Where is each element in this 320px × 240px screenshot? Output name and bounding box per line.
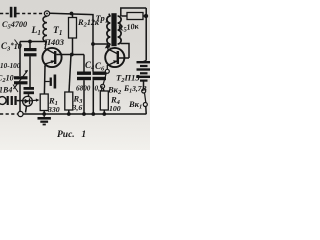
wire Tr1 primary bottom to T2 collector junction [108, 44, 110, 48]
wire R5 left lead [122, 15, 128, 17]
transformer Tr1 left winding [107, 16, 111, 44]
wire C6 top lead [92, 44, 94, 72]
wire battery top lead [144, 61, 147, 62]
transistor T1 collector wire [45, 42, 55, 54]
wire R5 right lead [143, 15, 146, 17]
wire C6 bottom lead [92, 80, 94, 114]
wire R3 bottom [68, 110, 70, 114]
wire diode bottom lead [26, 106, 27, 113]
ground symbol [43, 114, 45, 117]
transistor T2 emitter wire with arrow [107, 61, 117, 69]
wire T1 emitter down [43, 66, 46, 94]
capacitor C6 plates [93, 72, 107, 81]
wire right rail [145, 8, 147, 61]
wire T1 base to node A [56, 54, 84, 56]
transistor T2 base bar [117, 51, 119, 64]
label C3 pointer [15, 40, 20, 46]
wire R4 bottom [103, 110, 105, 114]
wire C2 branch lower [19, 85, 21, 112]
svg-text:330: 330 [47, 105, 60, 114]
node dot C3 top [28, 40, 32, 44]
transistor T1 circle [42, 48, 61, 67]
node A dot [70, 53, 74, 57]
battery B1 cells [137, 61, 151, 82]
wire feed drop x93 [93, 43, 108, 45]
wire Vk1 to bus corner [145, 107, 147, 115]
resistor R3 body [65, 92, 73, 110]
capacitor C1 plates (above diode) [24, 87, 35, 94]
svg-text:100: 100 [109, 104, 121, 113]
wire diode top stub [28, 94, 30, 96]
wire tank bus y41.5 [20, 41, 47, 43]
arrowhead Tr1 adjustable coupling [105, 43, 111, 48]
wire C4 bottom lead [83, 80, 85, 114]
capacitor C4 plates [77, 72, 91, 81]
node antenna terminal circle [44, 11, 49, 16]
wire C4 top lead [83, 55, 85, 72]
node dot R5 right [144, 14, 148, 18]
wire Tr1 secondary top lead [121, 8, 146, 16]
svg-text:6800: 6800 [76, 85, 91, 93]
wire R1 bottom [43, 111, 45, 115]
node dot R2 top [70, 12, 74, 16]
wire C3 upper lead [29, 42, 31, 49]
wire bottom bus solid [23, 113, 146, 115]
wire antenna dashed to terminal [17, 13, 44, 15]
switch Vk1 bottom contact [143, 103, 147, 107]
svg-text:Рис. 1: Рис. 1 [57, 130, 86, 140]
svg-text:C54700: C54700 [2, 20, 27, 31]
wire through diode [23, 100, 33, 102]
transformer Tr1 right winding [118, 16, 122, 44]
diode D1 arrow [25, 99, 29, 104]
transistor T2 collector wire [108, 44, 117, 54]
wire Tr1 left winding top hook [109, 14, 111, 17]
svg-text:1В4: 1В4 [0, 86, 12, 95]
svg-text:3,6: 3,6 [72, 103, 83, 112]
capacitor C2 plates (variable) [14, 76, 28, 84]
svg-text:Б13,7В: Б13,7В [123, 84, 147, 95]
capacitor C3 plates [24, 48, 37, 56]
resistor R4 body [100, 91, 108, 110]
arrow variable C2 [14, 71, 28, 90]
transistor T2 circle [105, 48, 124, 67]
wire antenna dashed lead-in (top left) [0, 13, 9, 15]
wire bottom bus dashed (external) [0, 113, 18, 115]
diode D1 circle [23, 96, 33, 106]
resistor R5 body [127, 13, 143, 20]
label diode pointer [13, 85, 18, 93]
wire R2 bottom lead [72, 38, 74, 55]
wire Vk2 to R4 [103, 88, 104, 91]
svg-text:10-100: 10-100 [0, 62, 21, 70]
wire phones row [17, 100, 23, 102]
svg-text:C210: C210 [0, 74, 14, 85]
node dot R4 bottom [102, 112, 106, 116]
paper background [0, 0, 150, 150]
transistor T1 emitter wire with arrow [45, 61, 55, 67]
resistor R2 body [69, 18, 77, 39]
wire arrow to R1 [32, 99, 36, 101]
node dot R1 bottom [42, 112, 46, 116]
switch Vk2 lever [103, 73, 106, 84]
wire battery bottom lead [143, 81, 145, 89]
wire C3 lower lead [29, 56, 31, 87]
inductor L1 coil [43, 16, 47, 42]
wire node A to R3 [69, 55, 71, 93]
switch Vk1 top contact [142, 89, 146, 93]
transistor T2 base wire [119, 57, 129, 59]
wire top bus [50, 13, 93, 44]
wire Tr1 secondary bottom lead [121, 44, 129, 59]
capacitor (phones) plates [11, 96, 17, 105]
node dot C6 bottom [91, 112, 95, 116]
switch Vk1 lever [145, 93, 146, 103]
capacitor C5 plates [10, 7, 17, 18]
wire C2 branch upper [19, 42, 21, 77]
wire R2 top lead [72, 14, 74, 18]
switch Vk2 bottom contact [101, 84, 105, 88]
svg-text:0,1: 0,1 [95, 85, 104, 93]
switch Vk2 top contact [105, 69, 109, 73]
transistor T1 base bar [54, 51, 56, 64]
transformer Tr1 core [111, 13, 116, 46]
node ground terminal circle [18, 111, 23, 116]
node dot x93 y44 [91, 42, 95, 46]
resistor R1 body [40, 94, 48, 111]
svg-text:Т2П15: Т2П15 [116, 73, 140, 85]
capacitor emitter bypass stub [45, 81, 50, 83]
node dot R3 bottom [67, 112, 71, 116]
node dot C4 bottom [82, 112, 86, 116]
jack symbol left edge [0, 97, 6, 105]
svg-text:П403: П403 [43, 37, 65, 47]
